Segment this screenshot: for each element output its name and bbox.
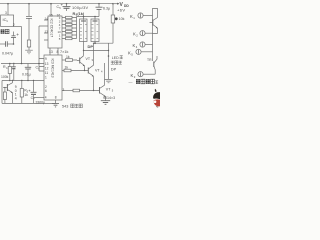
resistor on x29 drop [27,40,30,47]
svg-text:1k: 1k [66,55,70,59]
svg-text:15: 15 [49,13,53,17]
svg-text:14: 14 [45,17,49,21]
svg-text:LED: LED [112,56,119,60]
C2 series capacitor on y44 wire [0,43,5,45]
lower-left wire y80.5 [2,80,44,82]
svg-text:9014×3: 9014×3 [103,96,115,100]
svg-text:IC2 CD4017: IC2 CD4017 [50,19,54,38]
IC3 lower box [44,55,62,100]
ground below x29 [25,50,33,54]
R below VT1 base [4,88,6,93]
svg-text:13: 13 [45,62,49,66]
K2 row [140,31,145,36]
svg-text:+6V: +6V [117,7,125,12]
svg-text:100k: 100k [1,75,9,79]
pins between IC2 and IC3 [50,48,58,55]
cross wire y50.5 [84,50,109,52]
R5 [21,81,23,89]
K1 row [138,13,143,18]
cap next to R4 [13,64,15,67]
svg-text:VT: VT [86,57,91,61]
feedback bus x39 down to IC3 pins [38,26,40,71]
VT5 [99,87,101,94]
C6 [27,64,29,68]
IC3 ground stub + symbol [55,100,57,103]
microphone label (CJK glyphs) [1,29,5,33]
VDD arrow [114,3,119,5]
svg-text:DP: DP [111,66,117,71]
svg-text:—: — [129,79,133,84]
svg-text:1k: 1k [24,93,28,97]
svg-text:13: 13 [49,50,53,54]
K3 row [138,72,143,77]
wire under boxes y43.2 [84,42,96,51]
svg-text:543: 543 [62,105,68,109]
box top wire [77,16,100,18]
display box 1 [80,19,88,42]
wire drop x8 to IC1 [7,4,9,15]
right bus [152,16,154,62]
resistor 10k on x113 drop [112,4,114,15]
svg-text:4: 4 [15,96,17,100]
output resistor stack 7x [62,16,77,39]
capacitor C1 on x29 drop [28,4,30,17]
svg-text:1k: 1k [65,65,69,69]
VT4 [87,68,89,74]
C7 electrolytic [33,81,35,93]
top power rail [0,3,113,5]
capacitor C5 electrolytic at x66 [66,4,68,7]
svg-text:3300p: 3300p [36,101,46,105]
svg-text:0.047µ: 0.047µ [2,52,13,56]
svg-text:12: 12 [45,67,49,71]
top-right loop [153,9,158,18]
IC2 CD4017 box [48,16,62,48]
wire drop x51 to IC2 pin16 [50,4,52,16]
IC3 right: 1k resistor to VT4 [62,70,64,72]
svg-text:DP: DP [88,44,94,49]
capacitor at x99 [98,4,100,7]
svg-text:(1k): (1k) [77,12,84,16]
VT5 ground [101,101,110,105]
svg-text:9: 9 [45,57,47,61]
electrolytic C3 above y44 node [13,38,15,44]
left edge bus [1,81,3,104]
svg-text:8: 8 [55,95,57,99]
long drop to ground x108.5 [108,43,110,79]
left wire y63.5 into IC3 [1,63,44,65]
svg-text:3: 3 [5,11,7,15]
svg-text:10k: 10k [119,17,125,21]
svg-text:8: 8 [57,50,59,54]
collector bus for resistors [76,17,78,39]
IC3 pin3 output to VT5 [62,90,73,92]
svg-text:4: 4 [45,95,47,99]
svg-text:0.01µ: 0.01µ [22,73,31,77]
TR transistor right middle [153,62,155,68]
VT2 top right [152,20,154,26]
wire drop x21.5 down to y63.5 [21,27,23,64]
logo bottom right [153,89,160,107]
svg-text:6.3µ: 6.3µ [103,7,110,11]
junction dots on rail [7,3,114,5]
IC1 module box [1,15,14,27]
svg-text:IC3 MC1413: IC3 MC1413 [51,59,55,78]
svg-text:11: 11 [45,71,49,75]
K4 row [140,42,145,47]
VT1 [6,84,8,91]
VT3 [79,58,81,64]
junction dot and value label 10k [115,17,118,20]
svg-text:6: 6 [45,89,47,93]
svg-text:13: 13 [45,30,49,34]
svg-text:3: 3 [63,88,65,92]
svg-text:7×1k: 7×1k [60,50,68,54]
K5 row [136,49,141,54]
svg-text:100µ/3V: 100µ/3V [72,5,88,10]
bottom ground rail [2,102,56,104]
IC2 left pin stubs [39,20,48,40]
R4 [9,64,11,67]
svg-text:2: 2 [13,23,15,27]
svg-text:VT: VT [95,69,100,73]
wire y26.5 from IC1 to x22 [14,26,22,28]
display box 2 [91,19,99,42]
IC3 right: 1k resistor to VT3 [62,59,66,61]
svg-text:TR: TR [147,58,152,62]
svg-text:1: 1 [45,76,47,80]
svg-text:VT: VT [106,87,111,91]
